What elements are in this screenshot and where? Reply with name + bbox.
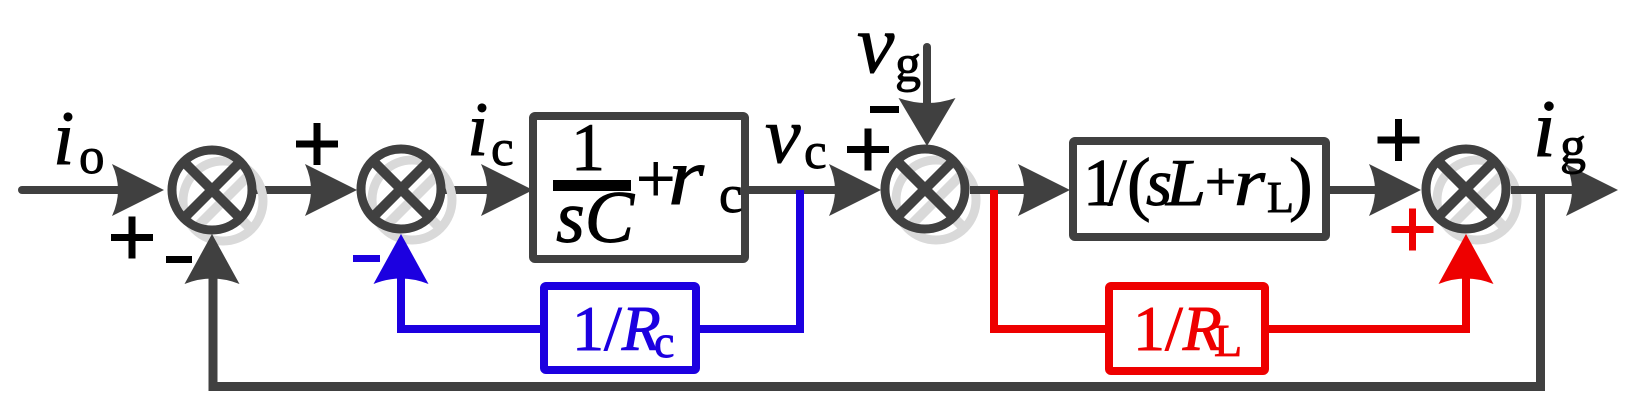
arrowhead into summing junction S1 xyxy=(112,164,164,216)
summing junction S3 xyxy=(885,149,976,240)
svg-text:v: v xyxy=(765,92,801,180)
bottom feedback: vertical drop from output xyxy=(1536,190,1545,391)
svg-text:c: c xyxy=(491,121,514,177)
svg-text:g: g xyxy=(895,36,921,93)
svg-text:1: 1 xyxy=(571,109,605,185)
svg-text:c: c xyxy=(804,124,827,180)
summing junction S4 xyxy=(1426,149,1517,240)
svg-text:+: + xyxy=(1205,151,1236,212)
svg-text:v: v xyxy=(857,0,895,91)
plus sign at S4 input xyxy=(1378,119,1420,161)
bottom feedback left vertical xyxy=(209,270,218,391)
wire S2 to block G1 xyxy=(445,186,520,194)
blue vertical up xyxy=(397,272,405,333)
svg-text:o: o xyxy=(79,129,105,185)
minus sign for v_g xyxy=(870,106,899,113)
red arrowhead into S4 xyxy=(1439,234,1494,284)
red block 1/RL xyxy=(1109,286,1265,371)
svg-text:r: r xyxy=(668,131,705,222)
summing junction S2 xyxy=(361,149,452,240)
plus sign below S1 left xyxy=(111,217,153,259)
wire G1 to S3 xyxy=(749,186,868,194)
red feedback tap from S3 output wire xyxy=(990,190,998,333)
svg-text:i: i xyxy=(467,86,488,172)
blue feedback tap from v_c wire xyxy=(796,190,804,333)
svg-text:sC: sC xyxy=(556,177,636,259)
block G1: 1/sC + rc xyxy=(533,109,745,259)
arrowhead into block G1 xyxy=(481,164,533,216)
svg-text:g: g xyxy=(1560,118,1586,175)
block G2: 1/(sL+rL) xyxy=(1073,141,1326,237)
svg-text:/: / xyxy=(1108,146,1127,220)
wire S3 to block G2 xyxy=(970,186,1056,194)
wire input i_o xyxy=(22,186,150,194)
minus sign below S1 xyxy=(166,256,192,263)
svg-text:i: i xyxy=(1533,83,1556,174)
output wire i_g xyxy=(1511,186,1600,194)
blue wire right segment xyxy=(692,325,804,333)
arrowhead up into S1 xyxy=(185,234,240,284)
blue block 1/Rc xyxy=(544,286,696,370)
wire S1 to S2 xyxy=(255,186,345,194)
blue arrowhead into S2 xyxy=(374,234,429,284)
svg-text:i: i xyxy=(53,95,74,181)
arrowhead into summing junction S2 xyxy=(305,164,357,216)
svg-text:1/R: 1/R xyxy=(1133,293,1222,364)
v_g vertical wire xyxy=(923,47,931,105)
arrowhead into summing junction S4 xyxy=(1369,164,1421,216)
arrowhead into block G2 xyxy=(1018,164,1070,216)
blue wire left segment xyxy=(397,325,548,333)
red vertical up xyxy=(1462,272,1470,333)
red plus sign xyxy=(1392,209,1434,251)
bottom feedback horizontal wire xyxy=(209,382,1546,391)
svg-text:1/R: 1/R xyxy=(572,293,661,364)
plus sign at S3 input xyxy=(847,129,889,171)
svg-text:): ) xyxy=(1289,145,1313,223)
svg-text:r: r xyxy=(1234,146,1266,220)
output arrowhead xyxy=(1566,164,1618,216)
svg-text:L: L xyxy=(1165,146,1206,220)
svg-text:c: c xyxy=(719,166,743,224)
plus sign above wire S1-S2 xyxy=(296,123,338,165)
svg-text:c: c xyxy=(654,316,674,367)
arrowhead into summing junction S3 xyxy=(829,164,881,216)
red wire right segment xyxy=(1262,325,1470,333)
red wire left segment xyxy=(990,325,1112,333)
svg-text:L: L xyxy=(1214,315,1242,366)
blue minus sign xyxy=(353,255,380,262)
summing junction S1 xyxy=(172,150,263,241)
wire G2 to S4 xyxy=(1330,186,1408,194)
v_g arrowhead down into S3 xyxy=(899,98,956,146)
